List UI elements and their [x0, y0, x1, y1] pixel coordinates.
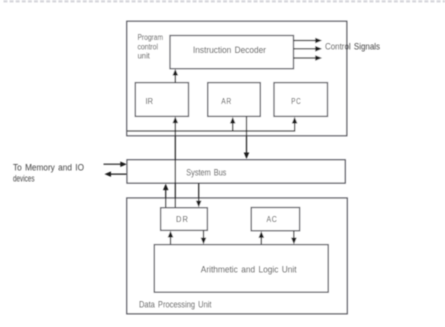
svg-text:DR: DR	[176, 214, 189, 224]
box: register AC	[251, 208, 299, 231]
wire: ALU up to DR	[168, 231, 174, 245]
svg-text:devices: devices	[13, 173, 35, 183]
svg-text:unit: unit	[138, 51, 151, 61]
svg-text:Arithmetic and Logic Unit: Arithmetic and Logic Unit	[201, 264, 297, 274]
svg-text:System Bus: System Bus	[186, 168, 226, 178]
wire: connector arrow into PC	[292, 117, 298, 124]
label: Program control unit	[138, 32, 164, 60]
wire: control signal arrow 3	[294, 55, 323, 61]
box: register DR	[161, 208, 208, 231]
label: To Memory and IO devices	[13, 163, 84, 184]
box: Instruction Decoder U-ID	[170, 36, 294, 69]
svg-text:Instruction Decoder: Instruction Decoder	[193, 45, 266, 55]
wire: AC down to ALU	[291, 231, 297, 244]
wire: memory arrow into bus (right pointing)	[104, 161, 127, 167]
svg-text:To Memory and IO: To Memory and IO	[13, 163, 84, 173]
wire: connector arrow into AR	[230, 117, 236, 131]
wire: bus arrow out to memory (left pointing)	[105, 171, 128, 177]
svg-text:Program: Program	[138, 32, 164, 42]
box: register PC	[274, 83, 328, 117]
svg-text:Data Processing Unit: Data Processing Unit	[139, 300, 212, 310]
wire: control signal arrow 2	[294, 46, 323, 52]
wire: DR up to System Bus	[163, 184, 169, 208]
wire: ALU up to AC	[259, 231, 265, 244]
label: System Bus	[186, 168, 226, 178]
svg-text:AR: AR	[221, 96, 232, 106]
box: Program control unit (outer)	[127, 21, 347, 135]
wire: internal connector line to registers	[127, 123, 294, 131]
box: Data Processing Unit (outer)	[127, 198, 347, 314]
dotted top page border	[4, 0, 445, 2]
box: register IR	[135, 83, 188, 117]
wire: System Bus down to DR	[196, 183, 202, 207]
box: register AR	[208, 83, 261, 117]
box: System Bus	[127, 160, 345, 183]
svg-text:Control Signals: Control Signals	[325, 41, 380, 51]
svg-text:PC: PC	[291, 96, 301, 106]
svg-text:AC: AC	[267, 214, 278, 224]
label: Control Signals	[325, 41, 380, 51]
svg-text:IR: IR	[146, 96, 154, 106]
wire: IR to Instruction Decoder	[173, 69, 179, 83]
wire: DR down to ALU	[201, 230, 207, 244]
box: Arithmetic and Logic Unit	[154, 245, 328, 293]
wire: control signal arrow 1	[294, 38, 323, 44]
wire: AR down to System Bus	[244, 116, 250, 159]
wire: long line DR up to IR	[173, 117, 179, 208]
